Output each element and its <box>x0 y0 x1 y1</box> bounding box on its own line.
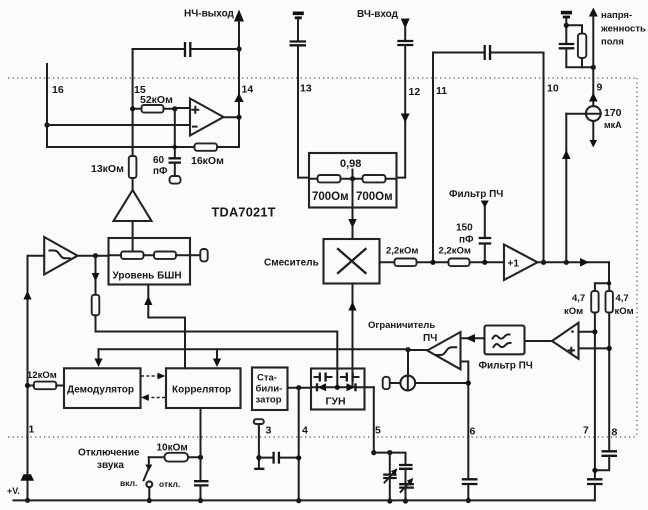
crystal circle <box>400 376 415 391</box>
wire circle right to pin6 <box>415 382 468 384</box>
svg-text:НЧ-выход: НЧ-выход <box>184 9 235 20</box>
wire 60pF to pad <box>174 163 176 176</box>
svg-text:4: 4 <box>302 425 308 437</box>
capacitor pin6 <box>462 479 478 484</box>
wire triangle to box <box>132 221 134 252</box>
wire box bottom <box>148 285 185 369</box>
resistor 2,2кОм b <box>449 259 470 267</box>
resistor 52кОм <box>142 105 164 113</box>
wire 16k feedback row <box>47 146 239 148</box>
junction 10k right <box>198 455 203 460</box>
capacitor (top right) <box>559 44 575 48</box>
wire filter to limiter + arrowhead <box>461 337 485 339</box>
wire pin12 lower <box>397 46 406 178</box>
resistor 700Ом left <box>318 175 341 182</box>
stub 0,98 to junction <box>352 170 354 179</box>
junction pin7/pin8 <box>592 468 597 473</box>
varactor cap left <box>315 376 332 378</box>
svg-text:150: 150 <box>456 223 473 234</box>
wire A4 output <box>525 340 553 342</box>
junction pin10 bottom <box>541 260 546 265</box>
junction 150pF <box>482 260 487 265</box>
wire mute cap to bottom <box>200 486 202 500</box>
IC boundary dashed top <box>8 77 637 79</box>
diode row wire <box>311 386 374 388</box>
junction A4 top input <box>592 329 597 334</box>
svg-text:откл.: откл. <box>159 479 180 489</box>
resistor 13кОм <box>129 156 137 178</box>
arrow into Коррелятор <box>216 349 218 359</box>
wire 13k to triangle <box>132 178 134 190</box>
arrowhead up on pin14 <box>234 93 243 102</box>
varactor cap right <box>341 376 359 378</box>
wire top feedback left segment <box>133 48 239 50</box>
arrowhead up on pin1 line <box>23 291 31 300</box>
capacitor 60пФ <box>169 158 182 162</box>
wire pin7 line <box>594 313 596 479</box>
ground top right <box>561 11 572 15</box>
wire pin13 lower <box>298 46 309 177</box>
resistor 700Ом right <box>363 175 386 182</box>
arrowhead up on meter branch <box>562 150 571 159</box>
svg-text:4,7: 4,7 <box>572 293 585 304</box>
box Фильтр ПЧ <box>485 326 525 355</box>
svg-text:Смеситель: Смеситель <box>264 258 319 269</box>
wire to cap 3-4 <box>259 457 299 459</box>
diode left <box>318 383 327 391</box>
meter circle 170uA <box>586 106 601 121</box>
resistor 4,7кОм right <box>606 291 613 313</box>
wire top loop pin11-pin10 <box>433 52 544 54</box>
svg-text:12кОм: 12кОм <box>27 370 57 381</box>
svg-text:12: 12 <box>409 86 421 98</box>
svg-text:ВЧ-вход: ВЧ-вход <box>357 9 399 20</box>
arrowhead up on pin9 <box>589 93 598 102</box>
wire pin11 vertical <box>432 53 434 263</box>
svg-text:13кОм: 13кОм <box>91 163 124 175</box>
box ГУН <box>311 369 365 410</box>
switch lever <box>148 457 150 467</box>
svg-text:женность: женность <box>600 24 646 35</box>
svg-text:60: 60 <box>153 155 165 166</box>
svg-text:Фильтр ПЧ: Фильтр ПЧ <box>449 189 503 200</box>
svg-text:ПЧ: ПЧ <box>423 333 437 344</box>
wire meter branch vertical <box>565 114 567 262</box>
arrowhead up into mixer <box>348 302 356 311</box>
resistors in box <box>121 252 144 259</box>
wire A1 output <box>78 255 109 257</box>
junction A4 bottom input <box>607 346 612 351</box>
svg-text:10: 10 <box>547 83 559 95</box>
svg-text:700Ом: 700Ом <box>312 191 349 203</box>
svg-text:Ста-: Ста- <box>257 373 277 384</box>
capacitor pin3-pin4 <box>274 452 279 464</box>
amp +1 <box>504 245 538 281</box>
svg-text:Отключение: Отключение <box>78 448 140 459</box>
wire op-amp output <box>224 116 240 118</box>
svg-text:2,2кОм: 2,2кОм <box>386 246 418 257</box>
junction pin5 bottom <box>371 450 376 455</box>
junction pin4 top <box>296 385 301 390</box>
svg-text:TDA7021T: TDA7021T <box>212 205 276 220</box>
svg-text:170: 170 <box>604 107 622 119</box>
wire pin12 upper <box>404 27 406 40</box>
svg-text:ГУН: ГУН <box>326 396 346 408</box>
wire pin8 line <box>608 313 610 451</box>
wire limiter bottom to pin6 <box>461 362 469 479</box>
resistor 4,7кОм left <box>591 291 598 313</box>
wires in box <box>109 254 191 256</box>
junction output/pin14 <box>236 115 241 120</box>
svg-text:+1: +1 <box>508 259 520 270</box>
pad under 60pF <box>170 176 181 184</box>
junction 0,98 center <box>350 176 355 181</box>
svg-text:били-: били- <box>256 384 283 395</box>
IC boundary dashed right <box>636 78 638 437</box>
resistor 12кОм <box>34 382 57 390</box>
wire +1 output <box>538 261 610 263</box>
junction pin11 bottom <box>430 260 435 265</box>
svg-text:Коррелятор: Коррелятор <box>172 385 231 396</box>
wire 150pF down <box>484 245 486 263</box>
svg-text:6: 6 <box>470 426 476 438</box>
svg-text:1: 1 <box>29 424 35 436</box>
bottom common wire <box>14 499 595 501</box>
wire resistor bottom <box>581 58 583 67</box>
svg-text:Ограничитель: Ограничитель <box>368 320 435 331</box>
op-amp U1 <box>190 99 224 136</box>
svg-text:16кОм: 16кОм <box>191 155 224 167</box>
IC boundary dashed bottom <box>8 436 637 438</box>
wire pin9 vertical <box>592 16 594 106</box>
junction diodes center <box>335 385 340 390</box>
junction pin14/top cap wire <box>236 46 241 51</box>
wire pin10 vertical <box>543 53 545 263</box>
svg-text:поля: поля <box>601 37 624 48</box>
junction pin16/minus wire <box>44 122 49 127</box>
svg-text:Демодулятор: Демодулятор <box>67 385 134 396</box>
pad left of circle <box>383 377 390 389</box>
capacitor C-fb (top feedback) <box>185 42 190 57</box>
capacitor in top loop <box>485 45 490 60</box>
mixer box <box>324 239 380 284</box>
wire to resistor top <box>566 25 582 33</box>
junction trimmer1 top <box>387 450 392 455</box>
wire box right to pad <box>190 254 200 256</box>
wire A1 input <box>28 256 45 501</box>
wire pin3 vertical <box>258 424 260 469</box>
capacitor (pin5 series) <box>399 465 413 469</box>
wire to 150pF <box>484 207 486 237</box>
capacitor pin8 <box>602 451 618 456</box>
capacitor mute <box>194 481 209 485</box>
arrowhead up into box <box>144 296 152 305</box>
wire pin4 vertical <box>298 388 300 501</box>
junction 4.7k branch <box>607 281 611 285</box>
junction top right <box>564 23 569 28</box>
junction A1 out/resistor <box>93 253 98 258</box>
svg-text:звука: звука <box>97 460 124 471</box>
svg-text:мкА: мкА <box>604 120 622 130</box>
resistor 16кОм <box>195 143 218 150</box>
wire pin7 cap to bottom <box>594 485 596 501</box>
wire through meter <box>566 113 600 115</box>
amp A1 (left limiter) <box>44 237 77 275</box>
wire pin 14 vertical <box>238 21 240 147</box>
wire +input down to 60pF <box>174 109 176 157</box>
box Демодулятор <box>64 368 141 408</box>
wire circle left to pad <box>390 382 401 384</box>
box Уровень БШН <box>109 238 191 285</box>
wire switch to bottom <box>148 487 150 500</box>
svg-text:напря-: напря- <box>601 10 632 21</box>
wire pin8 cap to pin7 <box>595 457 609 471</box>
svg-text:2,2кОм: 2,2кОм <box>439 246 471 257</box>
dashed arrow demod->correl <box>141 375 158 377</box>
svg-text:9: 9 <box>597 82 603 94</box>
box Коррелятор <box>166 368 241 408</box>
arrow output up pin14 top <box>234 10 244 22</box>
resistor (noise det) <box>92 295 100 316</box>
junction 52k right <box>172 106 177 111</box>
wires 10k <box>149 456 201 458</box>
wire A (to VCO) <box>96 315 338 387</box>
wire limiter output <box>408 349 427 351</box>
junctions bottom wire <box>147 498 152 503</box>
wave symbols <box>493 334 510 338</box>
svg-text:11: 11 <box>436 85 447 97</box>
svg-text:пФ: пФ <box>459 235 474 246</box>
wire down corner to 4.7k pair <box>595 262 609 291</box>
small arrow down under label <box>481 201 489 209</box>
svg-text:кОм: кОм <box>615 306 634 317</box>
pad right of box <box>200 249 207 261</box>
amp A4 (right, to filter) <box>552 323 579 359</box>
capacitor on pin12 <box>397 41 413 45</box>
wires A4 inputs <box>579 332 610 349</box>
capacitor pin7 <box>587 479 603 484</box>
svg-text:Фильтр ПЧ: Фильтр ПЧ <box>479 361 533 372</box>
mixer X <box>338 249 366 273</box>
svg-text:пФ: пФ <box>153 166 168 177</box>
wire demod bus (wire B) <box>99 348 409 350</box>
svg-text:затор: затор <box>256 395 282 406</box>
wire pin5 bottom branch <box>374 453 406 464</box>
wire pin13 upper <box>297 19 299 41</box>
wire pin5 down <box>373 387 375 452</box>
svg-text:8: 8 <box>612 427 618 439</box>
junction cap/pin4 <box>296 455 301 460</box>
amp triangle up A2 <box>114 190 152 221</box>
S-curve in A1 <box>50 251 70 259</box>
arrowhead down on pin12 <box>401 114 410 123</box>
wire cap to bottom row <box>566 49 593 67</box>
svg-text:кОм: кОм <box>564 306 583 317</box>
pin3 terminal pad <box>254 419 264 424</box>
svg-text:7: 7 <box>583 425 589 437</box>
dashed arrow correl->demod <box>148 397 165 399</box>
svg-text:+V.: +V. <box>7 486 20 496</box>
wire junction to oscillator pad <box>407 350 409 376</box>
S-curve in limiter <box>436 347 456 355</box>
diode right <box>347 383 356 391</box>
junction meter branch <box>564 260 569 265</box>
resistor (field strength) <box>578 34 586 58</box>
junction pin4 bottom <box>296 498 301 503</box>
svg-text:16: 16 <box>52 84 64 96</box>
capacitor on pin13 <box>290 42 307 46</box>
supply symbol <box>21 474 35 480</box>
wire mixer to VCO <box>352 284 354 387</box>
junctions at bottom wire <box>387 498 392 503</box>
amp limiter IF A3 <box>427 332 460 369</box>
junction 12k/pin1 <box>25 383 30 388</box>
svg-text:Уровень БШН: Уровень БШН <box>113 271 182 282</box>
svg-text:14: 14 <box>242 84 254 96</box>
wire 52k leads <box>133 107 190 110</box>
wire stab to VCO <box>288 387 312 389</box>
arrow field strength up <box>589 8 598 17</box>
svg-text:5: 5 <box>375 425 381 437</box>
svg-text:3: 3 <box>266 425 272 437</box>
arrow into Демодулятор <box>98 349 100 359</box>
trimmer cap 2 <box>405 470 407 484</box>
svg-text:4,7: 4,7 <box>616 293 629 304</box>
capacitor 150пФ <box>479 238 492 244</box>
junction 52k left <box>130 106 135 111</box>
junction pin9 top <box>591 65 596 70</box>
wire ground to junction <box>565 18 567 43</box>
svg-text:700Ом: 700Ом <box>356 191 393 203</box>
wires 12k <box>28 385 65 387</box>
pin3 end bar <box>254 468 264 470</box>
junction circle/pin6 <box>466 380 471 385</box>
wire pin 15 vertical <box>132 49 134 156</box>
junction at 16k row <box>173 145 177 149</box>
wire 0,98 to mixer <box>352 179 354 239</box>
wire pin6 cap to bottom <box>467 485 469 501</box>
box 0,98 <box>309 153 397 208</box>
arrowhead into mixer <box>348 219 356 228</box>
wire Коррелятор to 10k junction <box>200 408 202 480</box>
svg-text:13: 13 <box>300 83 312 95</box>
resistor 2,2кОм a <box>395 259 417 267</box>
wire op-amp minus input <box>47 124 190 126</box>
svg-text:вкл.: вкл. <box>120 478 137 488</box>
box Стабилизатор <box>252 368 288 411</box>
ground pin13 top <box>293 12 304 16</box>
arrowhead right on output <box>580 258 589 267</box>
wires 700Ом row <box>309 178 397 180</box>
arrow RF input down <box>401 19 410 29</box>
wire below meter + arrowhead <box>592 121 594 140</box>
junction pin3 cap branch <box>256 455 261 460</box>
wire mixer output <box>380 261 505 263</box>
svg-text:0,98: 0,98 <box>340 158 361 170</box>
junction limiter out <box>405 347 410 352</box>
trimmer cap 1 <box>389 453 391 474</box>
resistor 10кОм <box>165 453 189 462</box>
switch contact circle <box>146 481 152 487</box>
wire pin 16 stub <box>46 64 48 147</box>
wire resistor branch with arrowhead <box>95 256 97 295</box>
